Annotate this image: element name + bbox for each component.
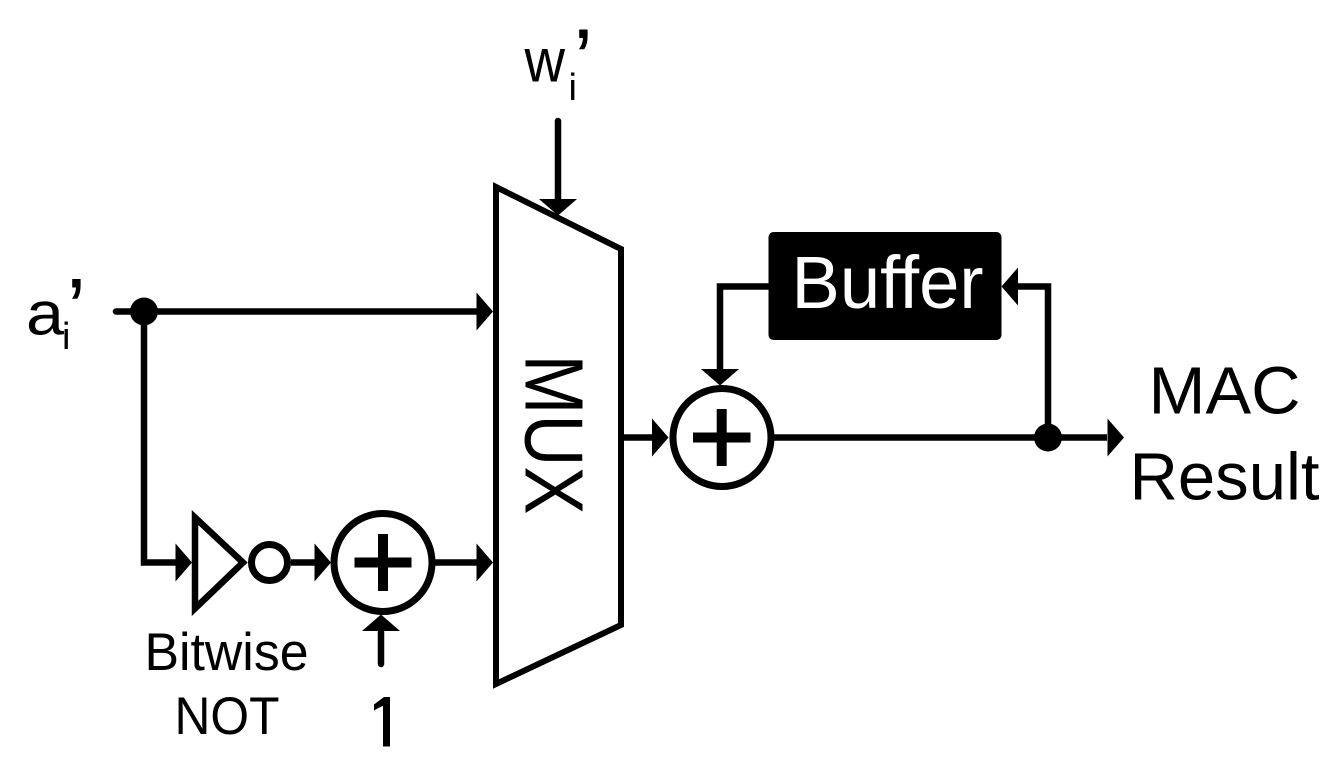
wire a_i' input stub xyxy=(116,308,144,315)
svg-text:’: ’ xyxy=(574,10,594,109)
wire adder U2 output to junction xyxy=(771,434,1048,441)
wire a_i' to MUX input 0 xyxy=(144,308,478,315)
bitwise NOT bubble xyxy=(252,545,288,581)
wire MAC result output arrow xyxy=(1048,434,1107,441)
adder U1 circle (+1 adder) xyxy=(334,514,432,612)
label MAC Result xyxy=(1130,354,1320,515)
svg-text:NOT: NOT xyxy=(175,687,280,746)
wire MUX output to adder U2 xyxy=(621,434,653,441)
wire adder U1 to MUX input 1 xyxy=(432,559,478,566)
svg-text:Buffer: Buffer xyxy=(792,241,984,324)
wire junction down then right into bitwise NOT xyxy=(144,312,178,563)
MUX trapezoid xyxy=(496,187,621,684)
adder U1 plus sign xyxy=(355,534,412,591)
label constant 1 xyxy=(374,697,390,747)
junction dot at a_i' xyxy=(130,298,158,326)
wire NOT bubble to adder U1 xyxy=(291,559,315,566)
adder U2 circle (accumulator adder) xyxy=(673,389,771,487)
wire feedback from junction up and left into Buffer xyxy=(1017,287,1048,438)
junction dot at MAC output xyxy=(1034,424,1062,452)
svg-text:Result: Result xyxy=(1130,440,1320,515)
svg-text:MUX: MUX xyxy=(508,355,601,515)
wire w_i' into MUX select xyxy=(555,121,562,200)
Buffer register box xyxy=(769,232,1002,340)
adder U2 plus sign xyxy=(693,409,751,466)
wire Buffer output left and down to adder U2 xyxy=(720,287,769,371)
wire constant 1 into adder U1 xyxy=(378,632,385,664)
svg-text:Bitwise: Bitwise xyxy=(145,623,309,682)
node a_i' input label xyxy=(26,260,86,359)
node w_i' input label xyxy=(524,10,593,109)
bitwise NOT inverter triangle xyxy=(195,518,243,609)
svg-text:MAC: MAC xyxy=(1149,354,1301,429)
label Bitwise NOT xyxy=(145,623,309,746)
svg-text:w: w xyxy=(524,27,566,95)
svg-text:’: ’ xyxy=(67,260,87,359)
svg-text:a: a xyxy=(26,280,64,348)
